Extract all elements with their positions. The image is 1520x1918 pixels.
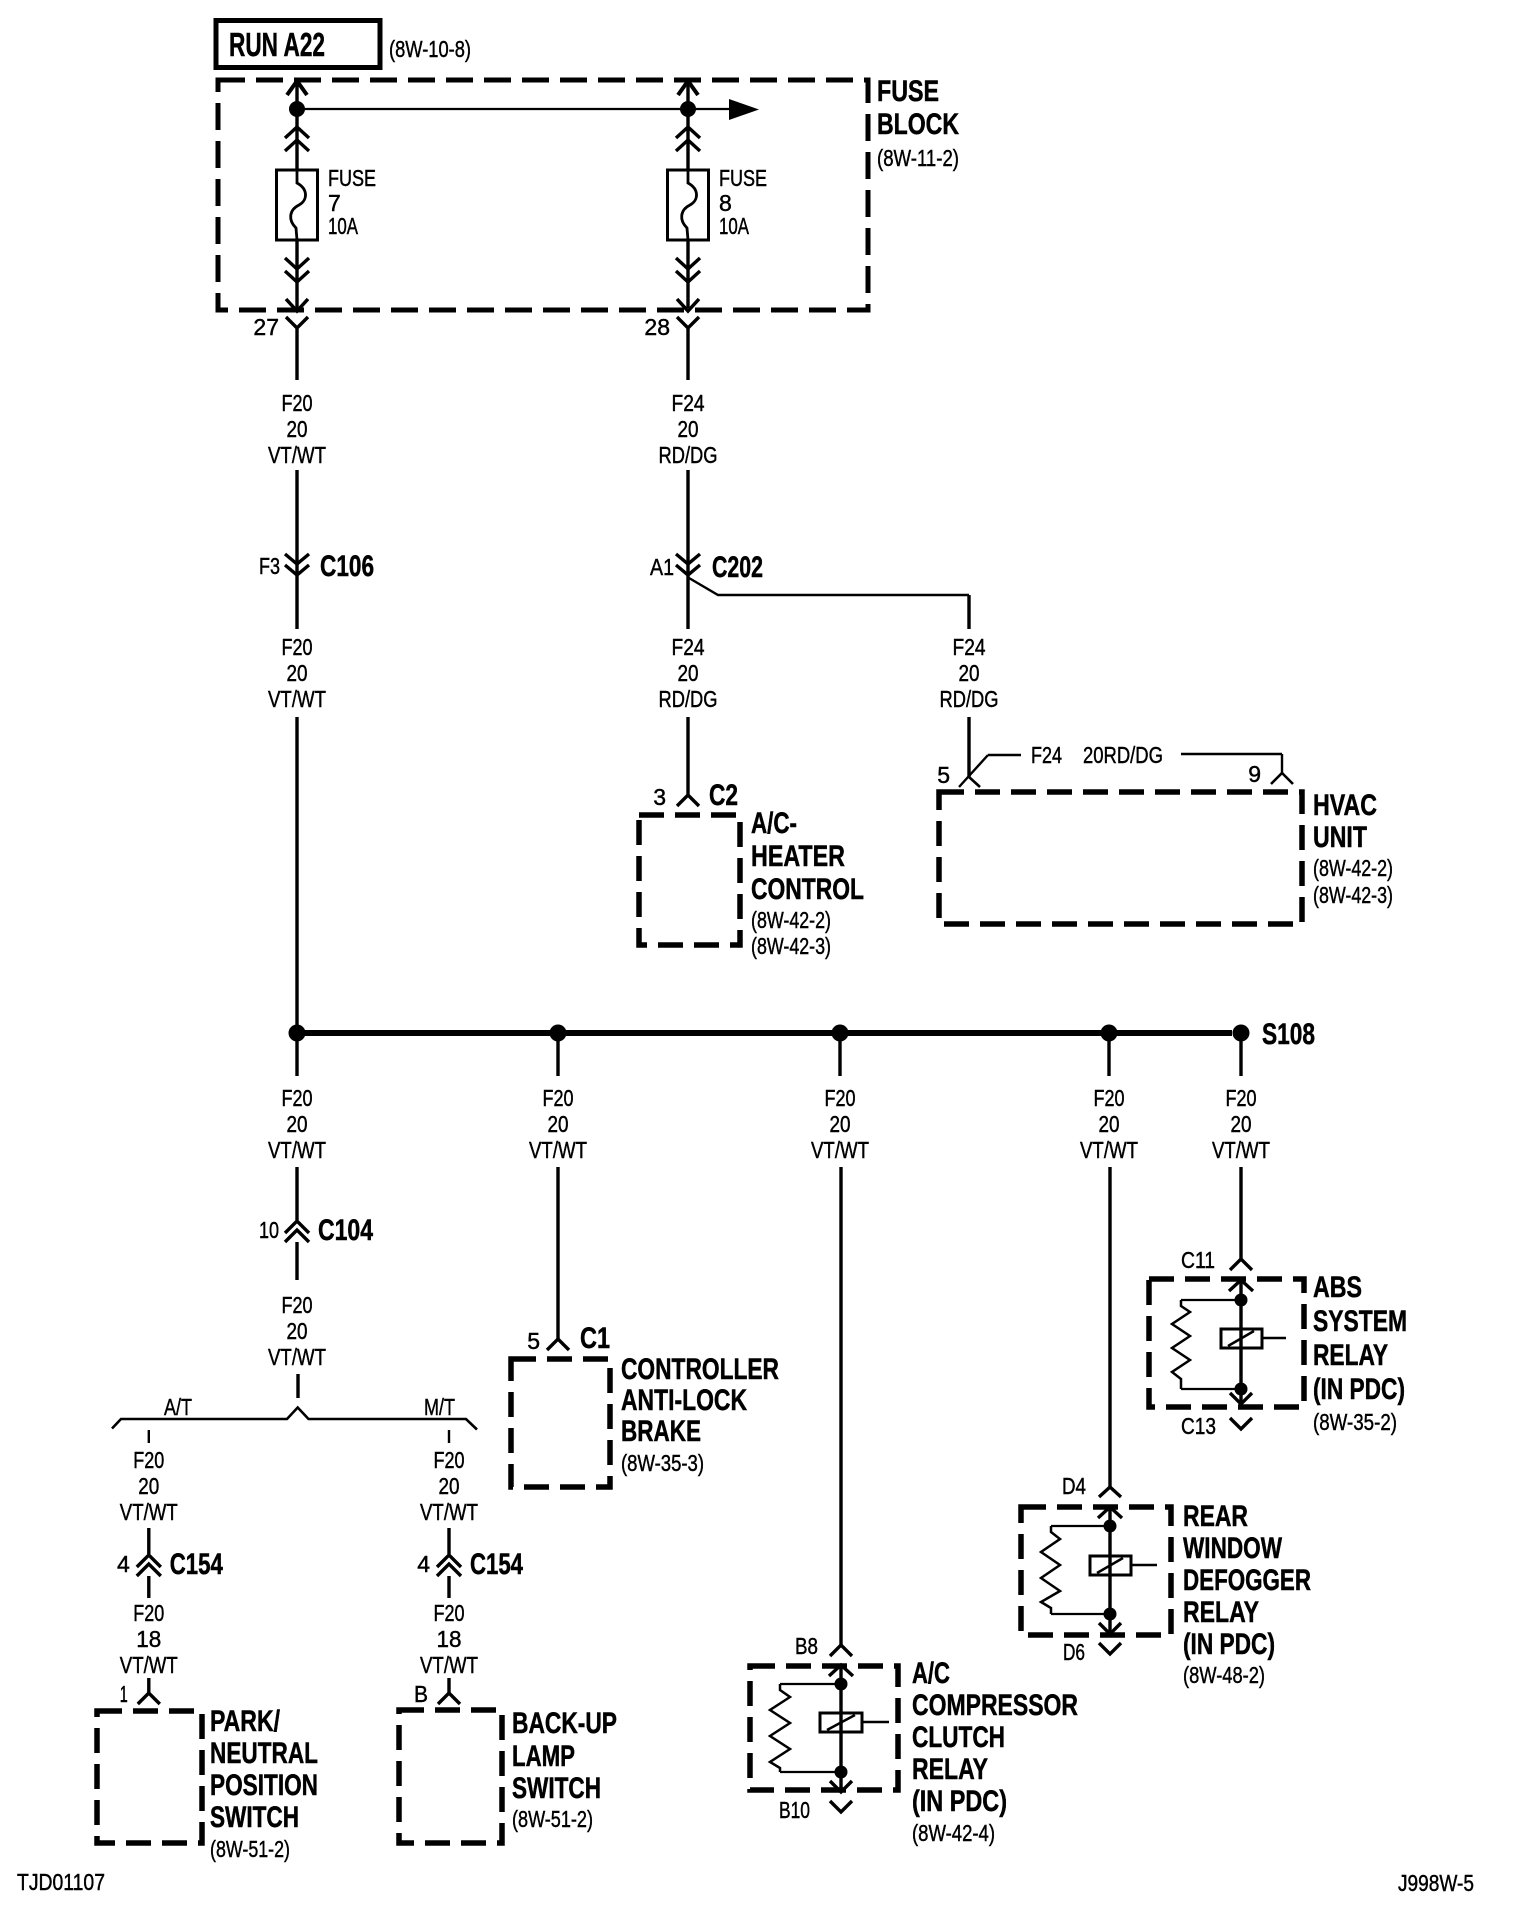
svg-text:A/C-: A/C- bbox=[751, 807, 797, 840]
svg-text:RD/DG: RD/DG bbox=[659, 686, 718, 712]
svg-text:F24: F24 bbox=[953, 634, 986, 660]
svg-text:FUSE: FUSE bbox=[328, 165, 376, 191]
svg-text:POSITION: POSITION bbox=[210, 1769, 318, 1802]
svg-text:CONTROL: CONTROL bbox=[751, 873, 864, 906]
svg-text:ANTI-LOCK: ANTI-LOCK bbox=[621, 1384, 747, 1417]
svg-text:RELAY: RELAY bbox=[1183, 1596, 1259, 1629]
svg-text:COMPRESSOR: COMPRESSOR bbox=[912, 1689, 1078, 1722]
svg-text:A1: A1 bbox=[650, 554, 674, 580]
svg-text:27: 27 bbox=[253, 314, 279, 340]
svg-text:20: 20 bbox=[678, 416, 699, 442]
svg-text:F20: F20 bbox=[282, 634, 313, 660]
svg-text:SWITCH: SWITCH bbox=[512, 1772, 601, 1805]
svg-text:REAR: REAR bbox=[1183, 1500, 1248, 1533]
svg-text:(IN PDC): (IN PDC) bbox=[1183, 1628, 1275, 1661]
svg-text:BRAKE: BRAKE bbox=[621, 1415, 701, 1448]
svg-text:28: 28 bbox=[644, 314, 670, 340]
svg-text:C104: C104 bbox=[318, 1214, 373, 1247]
svg-text:C154: C154 bbox=[170, 1548, 223, 1581]
svg-text:(8W-51-2): (8W-51-2) bbox=[210, 1836, 290, 1862]
svg-text:20RD/DG: 20RD/DG bbox=[1083, 742, 1163, 768]
svg-text:D6: D6 bbox=[1063, 1639, 1085, 1665]
svg-text:C2: C2 bbox=[709, 779, 738, 812]
svg-text:VT/WT: VT/WT bbox=[268, 686, 326, 712]
svg-text:10: 10 bbox=[259, 1217, 279, 1243]
svg-text:20: 20 bbox=[1231, 1111, 1252, 1137]
svg-text:J998W-5: J998W-5 bbox=[1398, 1870, 1474, 1896]
svg-text:(8W-10-8): (8W-10-8) bbox=[389, 36, 471, 62]
svg-text:C106: C106 bbox=[320, 550, 374, 583]
svg-text:SYSTEM: SYSTEM bbox=[1313, 1305, 1407, 1338]
svg-text:RD/DG: RD/DG bbox=[659, 442, 718, 468]
svg-text:4: 4 bbox=[417, 1551, 430, 1577]
svg-text:VT/WT: VT/WT bbox=[420, 1652, 478, 1678]
svg-text:B8: B8 bbox=[795, 1633, 818, 1659]
svg-text:TJD01107: TJD01107 bbox=[17, 1869, 105, 1895]
svg-text:C11: C11 bbox=[1181, 1247, 1215, 1273]
svg-text:F20: F20 bbox=[543, 1085, 574, 1111]
svg-text:A/T: A/T bbox=[164, 1394, 192, 1420]
svg-text:20: 20 bbox=[287, 416, 308, 442]
svg-text:PARK/: PARK/ bbox=[210, 1705, 281, 1738]
svg-text:10A: 10A bbox=[719, 213, 749, 239]
svg-text:20: 20 bbox=[1099, 1111, 1120, 1137]
svg-text:F20: F20 bbox=[133, 1447, 164, 1473]
svg-text:10A: 10A bbox=[328, 213, 358, 239]
svg-text:S108: S108 bbox=[1262, 1018, 1315, 1051]
svg-text:HVAC: HVAC bbox=[1313, 789, 1377, 822]
svg-text:C1: C1 bbox=[580, 1322, 610, 1355]
svg-text:18: 18 bbox=[136, 1626, 161, 1652]
svg-text:(8W-11-2): (8W-11-2) bbox=[877, 145, 959, 171]
svg-text:B: B bbox=[414, 1681, 428, 1707]
svg-text:B10: B10 bbox=[779, 1797, 810, 1823]
svg-text:9: 9 bbox=[1248, 761, 1261, 787]
svg-text:BLOCK: BLOCK bbox=[877, 108, 959, 141]
svg-text:D4: D4 bbox=[1062, 1473, 1086, 1499]
svg-text:F20: F20 bbox=[434, 1447, 465, 1473]
svg-text:VT/WT: VT/WT bbox=[420, 1499, 478, 1525]
svg-text:RELAY: RELAY bbox=[912, 1753, 988, 1786]
svg-text:(8W-51-2): (8W-51-2) bbox=[512, 1806, 593, 1832]
svg-text:F3: F3 bbox=[259, 553, 280, 579]
svg-text:F20: F20 bbox=[282, 1085, 313, 1111]
svg-text:(8W-42-3): (8W-42-3) bbox=[1313, 882, 1393, 908]
svg-text:C154: C154 bbox=[470, 1548, 523, 1581]
svg-text:20: 20 bbox=[678, 660, 699, 686]
svg-text:NEUTRAL: NEUTRAL bbox=[210, 1737, 318, 1770]
svg-text:20: 20 bbox=[959, 660, 980, 686]
svg-text:RUN A22: RUN A22 bbox=[229, 26, 325, 63]
svg-text:5: 5 bbox=[937, 762, 950, 788]
svg-text:VT/WT: VT/WT bbox=[1080, 1137, 1138, 1163]
svg-text:M/T: M/T bbox=[424, 1394, 455, 1420]
svg-text:F20: F20 bbox=[825, 1085, 856, 1111]
svg-text:BACK-UP: BACK-UP bbox=[512, 1707, 617, 1740]
svg-text:CLUTCH: CLUTCH bbox=[912, 1721, 1005, 1754]
svg-text:A/C: A/C bbox=[912, 1657, 950, 1690]
svg-text:F20: F20 bbox=[434, 1600, 465, 1626]
svg-text:(8W-48-2): (8W-48-2) bbox=[1183, 1662, 1265, 1688]
svg-text:VT/WT: VT/WT bbox=[811, 1137, 869, 1163]
svg-text:F20: F20 bbox=[1094, 1085, 1125, 1111]
svg-text:1: 1 bbox=[120, 1681, 128, 1707]
svg-text:20: 20 bbox=[830, 1111, 851, 1137]
svg-text:FUSE: FUSE bbox=[719, 165, 767, 191]
svg-text:VT/WT: VT/WT bbox=[1212, 1137, 1270, 1163]
svg-text:F20: F20 bbox=[282, 390, 313, 416]
svg-text:VT/WT: VT/WT bbox=[120, 1499, 178, 1525]
svg-text:VT/WT: VT/WT bbox=[268, 442, 326, 468]
svg-text:(8W-42-3): (8W-42-3) bbox=[751, 933, 831, 959]
svg-text:F24: F24 bbox=[1031, 742, 1062, 768]
svg-text:WINDOW: WINDOW bbox=[1183, 1532, 1283, 1565]
svg-text:20: 20 bbox=[439, 1473, 460, 1499]
svg-text:20: 20 bbox=[287, 660, 308, 686]
svg-text:HEATER: HEATER bbox=[751, 840, 845, 873]
svg-text:C13: C13 bbox=[1181, 1413, 1216, 1439]
svg-text:VT/WT: VT/WT bbox=[268, 1137, 326, 1163]
svg-text:ABS: ABS bbox=[1313, 1271, 1362, 1304]
svg-text:F24: F24 bbox=[672, 634, 705, 660]
svg-text:SWITCH: SWITCH bbox=[210, 1801, 299, 1834]
svg-text:18: 18 bbox=[437, 1626, 462, 1652]
svg-text:20: 20 bbox=[287, 1318, 308, 1344]
svg-text:RD/DG: RD/DG bbox=[940, 686, 999, 712]
svg-text:UNIT: UNIT bbox=[1313, 821, 1367, 854]
svg-text:(IN PDC): (IN PDC) bbox=[1313, 1373, 1405, 1406]
svg-text:C202: C202 bbox=[712, 551, 763, 584]
svg-text:3: 3 bbox=[653, 784, 666, 810]
svg-text:(8W-42-2): (8W-42-2) bbox=[751, 907, 831, 933]
svg-text:F20: F20 bbox=[1226, 1085, 1257, 1111]
svg-text:VT/WT: VT/WT bbox=[120, 1652, 178, 1678]
svg-text:20: 20 bbox=[287, 1111, 308, 1137]
svg-text:LAMP: LAMP bbox=[512, 1740, 575, 1773]
svg-text:VT/WT: VT/WT bbox=[268, 1344, 326, 1370]
svg-text:(8W-42-2): (8W-42-2) bbox=[1313, 855, 1393, 881]
svg-text:(IN PDC): (IN PDC) bbox=[912, 1785, 1007, 1818]
svg-text:(8W-35-2): (8W-35-2) bbox=[1313, 1409, 1397, 1435]
svg-text:20: 20 bbox=[138, 1473, 159, 1499]
svg-text:DEFOGGER: DEFOGGER bbox=[1183, 1564, 1311, 1597]
svg-text:(8W-42-4): (8W-42-4) bbox=[912, 1820, 995, 1846]
svg-text:F20: F20 bbox=[133, 1600, 164, 1626]
svg-text:VT/WT: VT/WT bbox=[529, 1137, 587, 1163]
svg-text:5: 5 bbox=[527, 1328, 540, 1354]
svg-text:F24: F24 bbox=[672, 390, 705, 416]
svg-text:FUSE: FUSE bbox=[877, 75, 939, 108]
svg-text:(8W-35-3): (8W-35-3) bbox=[621, 1450, 704, 1476]
svg-text:CONTROLLER: CONTROLLER bbox=[621, 1353, 779, 1386]
svg-text:20: 20 bbox=[548, 1111, 569, 1137]
svg-text:4: 4 bbox=[117, 1551, 130, 1577]
svg-text:F20: F20 bbox=[282, 1292, 313, 1318]
svg-text:RELAY: RELAY bbox=[1313, 1339, 1388, 1372]
